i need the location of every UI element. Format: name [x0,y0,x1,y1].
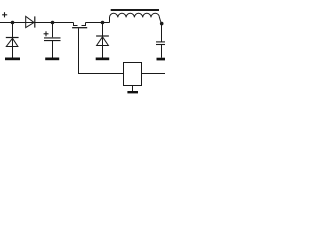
ground input cap [45,58,59,61]
wire input rail [0,22,74,24]
diode D3 shunt left [6,38,19,47]
junction node input [11,21,15,25]
wire gate lead to controller [79,28,124,73]
transistor Q1 mosfet switch [72,23,87,28]
junction node switch [101,21,105,25]
wire rail mosfet to inductor [86,22,110,24]
wire left branch down [12,23,14,58]
plus label capacitor C1 [44,31,49,36]
plus label input terminal [2,12,7,17]
ground freewheel diode [96,58,110,61]
junction node output [160,22,164,26]
op-amp U1 controller box [124,63,142,86]
inductor L1 core line [111,9,159,11]
ground left [5,58,20,61]
inductor L1 coil [110,13,162,23]
ground output cap [157,58,166,61]
wire cap branch down [52,23,54,38]
diode D1 series input [26,16,35,27]
junction node input cap [51,21,55,25]
wire controller output right [142,73,166,75]
ground controller [127,91,138,93]
wire cap to ground [52,41,54,58]
wire output branch down [161,24,163,42]
diode D2 freewheel [96,36,109,46]
wire freewheel branch down [102,23,104,58]
wire controller ground stub [132,86,134,92]
capacitor C1 electrolytic input [44,38,61,41]
capacitor C2 output [156,42,165,45]
wire output cap to ground [161,45,163,58]
